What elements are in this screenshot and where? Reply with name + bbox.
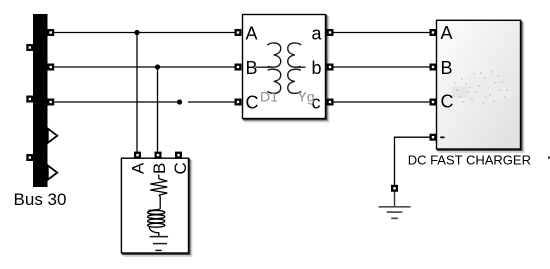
charger faint picture speckles [452, 71, 512, 103]
svg-text:A: A [246, 23, 258, 43]
svg-text:A: A [129, 162, 148, 174]
bus left port 2 [26, 96, 33, 103]
wire charger minus to ground [395, 137, 430, 185]
transformer port B [235, 64, 242, 71]
ground line 3 [391, 217, 398, 219]
wire phase A bus to transformer [54, 32, 234, 34]
wire L to C [149, 227, 159, 237]
clipped digit 1 of label [548, 156, 550, 158]
wire phase B bus to transformer [54, 66, 234, 68]
svg-text:Bus 30: Bus 30 [14, 190, 67, 209]
junction node B [155, 64, 160, 69]
load block body [121, 158, 188, 253]
transformer winding secondary bottom [288, 69, 301, 93]
bus chevron port 2 [48, 166, 58, 180]
bus right port C [47, 99, 54, 106]
wire R to L [149, 195, 161, 210]
svg-text:C: C [246, 92, 259, 112]
svg-text:Yg: Yg [298, 89, 315, 105]
bus right port A [47, 29, 54, 36]
transformer winding primary top [267, 43, 280, 67]
charger block body [437, 20, 521, 149]
transformer primary tap wire [255, 66, 272, 68]
load ground line 3 [155, 249, 161, 251]
svg-text:B: B [441, 58, 453, 78]
ground line 1 [379, 206, 411, 208]
load ground line 2 [153, 243, 167, 245]
inductor L of load [148, 211, 165, 228]
charger port B [430, 64, 437, 71]
svg-text:C: C [171, 162, 190, 174]
bus chevron port 1 [48, 129, 58, 143]
charger port A [430, 29, 437, 36]
transformer winding secondary top [288, 43, 301, 67]
ground line 2 [387, 211, 403, 213]
bus right port B [47, 64, 54, 71]
svg-text:b: b [312, 58, 322, 78]
transformer block shadow [245, 17, 328, 121]
transformer port c [327, 99, 334, 106]
resistor R of load [150, 179, 167, 196]
charger label minus [440, 137, 444, 139]
charger port C [430, 99, 437, 106]
transformer port C [235, 99, 242, 106]
ground stem [394, 192, 396, 207]
load block shadow [124, 161, 191, 256]
load port C [175, 152, 182, 159]
load port A [134, 152, 141, 159]
wire phase C bus segment [54, 101, 179, 103]
load branch lead wire [158, 175, 160, 179]
transformer port b [327, 64, 334, 71]
transformer port a [327, 29, 334, 36]
svg-text:B: B [150, 163, 169, 174]
load port B [155, 152, 162, 159]
svg-text:a: a [312, 24, 323, 44]
transformer block body [243, 15, 326, 119]
charger block shadow [439, 23, 523, 152]
wire phase A drop to load [136, 33, 138, 153]
junction node C [177, 99, 182, 104]
wire phase C to transformer [188, 101, 235, 103]
transformer port A [235, 29, 242, 36]
transformer secondary tap wire [296, 66, 306, 68]
svg-text:DC FAST CHARGER: DC FAST CHARGER [408, 152, 531, 167]
svg-text:A: A [441, 23, 453, 43]
ground port [391, 185, 398, 192]
bus left port 1 [26, 44, 33, 51]
bus bar Bus 30 [33, 14, 48, 187]
svg-text:C: C [441, 92, 454, 112]
wire phase B drop to load [157, 67, 159, 152]
wire phase c transformer to charger [334, 101, 430, 103]
bus left port 3 [26, 154, 33, 161]
load ground line 1 [150, 236, 169, 238]
wire phase b transformer to charger [334, 66, 430, 68]
svg-text:D1: D1 [260, 89, 278, 105]
transformer winding primary bottom [267, 69, 280, 93]
junction node A [134, 30, 139, 35]
wire phase a transformer to charger [334, 32, 430, 34]
charger port minus [430, 134, 437, 141]
